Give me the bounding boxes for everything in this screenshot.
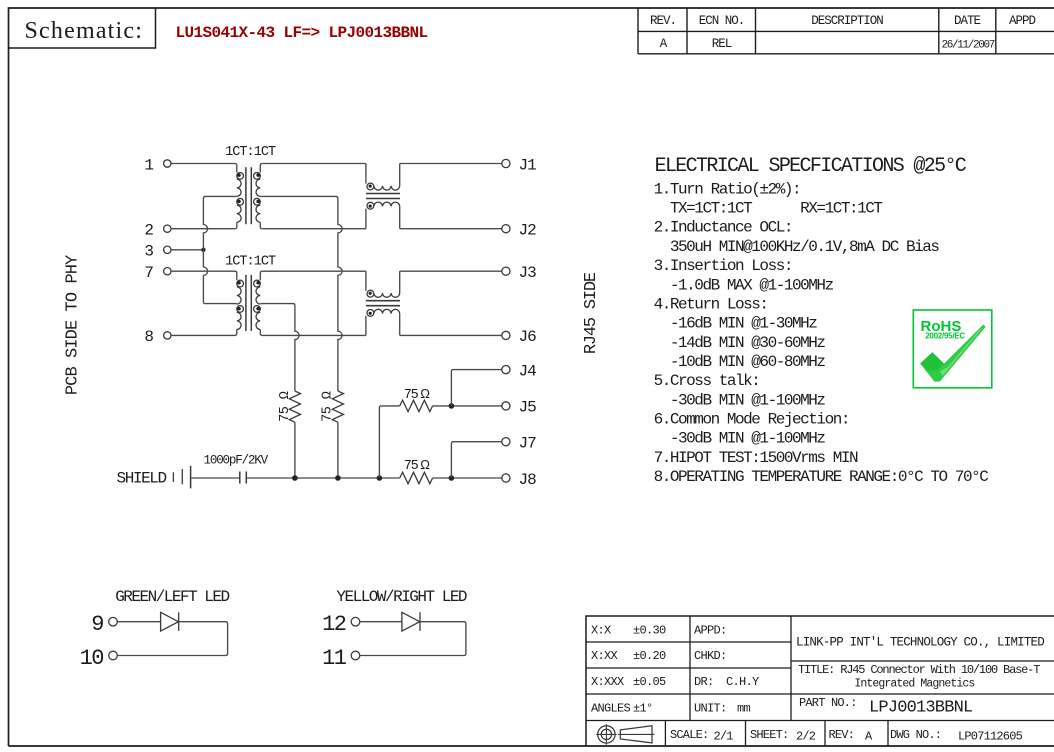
svg-text:-1.0dB MAX @1-100MHz: -1.0dB MAX @1-100MHz	[654, 276, 834, 294]
svg-text:ANGLES: ANGLES	[591, 702, 631, 716]
resistor R3 75ohm (horizontal)	[400, 400, 433, 411]
junction dots on bus	[292, 475, 382, 481]
svg-text:GREEN/LEFT LED: GREEN/LEFT LED	[115, 588, 229, 606]
common-mode choke CM2 core	[366, 301, 400, 306]
svg-text:±0.05: ±0.05	[633, 675, 666, 689]
svg-text:11: 11	[322, 646, 347, 671]
pin 3	[144, 243, 171, 261]
pin J7	[502, 435, 536, 453]
svg-text:X:X: X:X	[591, 624, 611, 638]
revision table	[638, 8, 1054, 54]
svg-text:-30dB MIN @1-100MHz: -30dB MIN @1-100MHz	[654, 430, 826, 448]
center-tap net vertical (pin3 to T1/T2 taps)	[203, 196, 236, 303]
polarity dots T2	[237, 281, 260, 310]
svg-text:8: 8	[144, 328, 154, 346]
svg-text:UNIT:: UNIT:	[694, 702, 727, 716]
svg-text:-14dB MIN @30-60MHz: -14dB MIN @30-60MHz	[654, 334, 826, 352]
wire R3 to J5	[433, 405, 502, 407]
pin J2	[502, 222, 536, 240]
junction dot pin3	[201, 248, 205, 252]
tolerance column text	[591, 624, 666, 716]
svg-text:DWG NO.:: DWG NO.:	[890, 728, 941, 742]
common-mode choke CM2 top winding	[366, 271, 400, 297]
svg-text:REV:: REV:	[829, 728, 855, 742]
wire CMC to J6	[400, 334, 502, 336]
label 1CT:1CT (T1)	[225, 145, 276, 160]
polarity dots CM1	[369, 185, 372, 208]
svg-text:J6: J6	[519, 328, 537, 346]
pin J6	[502, 328, 536, 346]
svg-text:Schematic:: Schematic:	[25, 18, 144, 44]
svg-text:APPD: APPD	[1009, 14, 1036, 28]
svg-text:ECN NO.: ECN NO.	[699, 14, 745, 28]
transformer T1 secondary winding	[254, 164, 263, 229]
RoHS logo	[913, 310, 992, 388]
svg-text:DATE: DATE	[954, 14, 981, 28]
approval column text	[694, 624, 759, 716]
label 75ohm R1	[278, 391, 293, 422]
svg-text:SHIELD: SHIELD	[117, 470, 167, 488]
label RJ45 SIDE	[582, 272, 601, 354]
pin 12	[322, 612, 360, 637]
pin 11	[322, 646, 360, 671]
svg-text:REV.: REV.	[650, 14, 676, 28]
pin J3	[502, 264, 536, 282]
svg-text:2/1: 2/1	[714, 730, 734, 744]
svg-text:75 Ω: 75 Ω	[278, 391, 293, 422]
resistor R1 75ohm (vertical)	[289, 391, 300, 422]
wire T2 secondary bottom to CMC2	[262, 334, 366, 336]
capacitor 1000pF/2KV	[240, 472, 247, 484]
svg-text:-30dB MIN @1-100MHz: -30dB MIN @1-100MHz	[654, 391, 826, 409]
svg-text:J3: J3	[519, 264, 537, 282]
wire pin12 to LED2	[360, 621, 402, 623]
pin J8	[502, 471, 536, 489]
svg-text:12: 12	[322, 612, 346, 637]
svg-text:LPJ0013BBNL: LPJ0013BBNL	[869, 699, 973, 718]
wire T2 secondary top to CMC2	[262, 270, 366, 272]
polarity dots CM2	[369, 292, 372, 315]
svg-text:DESCRIPTION: DESCRIPTION	[811, 14, 883, 28]
label YELLOW/RIGHT LED	[336, 588, 467, 606]
svg-text:Ω: Ω	[420, 457, 430, 472]
wire T1 secondary top to CMC1	[262, 163, 366, 165]
svg-text:YELLOW/RIGHT LED: YELLOW/RIGHT LED	[336, 588, 467, 606]
svg-text:4.Return Loss:: 4.Return Loss:	[654, 295, 768, 313]
junction dot J7 branch	[449, 475, 455, 481]
svg-text:A: A	[865, 730, 873, 744]
svg-text:1CT:1CT: 1CT:1CT	[225, 255, 276, 270]
wire CMC to J3	[400, 270, 502, 272]
svg-text:J7: J7	[519, 435, 537, 453]
schematic title text	[25, 18, 144, 44]
transformer T1 core	[246, 167, 251, 224]
wire pin9 to LED1	[117, 621, 160, 623]
svg-text:10: 10	[80, 646, 104, 671]
svg-text:±0.30: ±0.30	[633, 624, 666, 638]
svg-text:PCB SIDE TO PHY: PCB SIDE TO PHY	[64, 255, 83, 395]
svg-text:A: A	[660, 37, 668, 51]
svg-text:±1°: ±1°	[633, 702, 653, 716]
svg-text:CHKD:: CHKD:	[694, 649, 727, 663]
common-mode choke CM1 bottom winding	[366, 202, 400, 229]
pin 2	[144, 222, 171, 240]
svg-text:6.Common Mode Rejection:: 6.Common Mode Rejection:	[654, 410, 849, 428]
LED2 diode (yellow/right)	[402, 612, 420, 631]
label 75ohm R3	[404, 386, 430, 403]
common-mode choke CM2 bottom winding	[366, 309, 400, 335]
revision table header text	[650, 14, 1036, 28]
resistor R4 75ohm (horizontal)	[400, 472, 433, 483]
pin J5	[502, 399, 536, 417]
schematic title box	[9, 8, 156, 48]
pin J1	[502, 156, 536, 174]
svg-text:LP07112605: LP07112605	[958, 730, 1023, 744]
svg-text:SCALE:: SCALE:	[670, 728, 708, 742]
svg-text:J4: J4	[519, 362, 537, 380]
svg-text:PART NO.:: PART NO.:	[799, 696, 857, 710]
svg-text:APPD:: APPD:	[694, 624, 727, 638]
wire CMC to J1	[400, 163, 502, 165]
svg-text:3: 3	[144, 243, 154, 261]
wire R1 to bus	[294, 422, 296, 478]
svg-text:RJ45 SIDE: RJ45 SIDE	[582, 272, 601, 354]
svg-text:2002/95/EC: 2002/95/EC	[925, 332, 965, 341]
svg-text:REL: REL	[712, 37, 732, 51]
wire pin1 to T1 (drawn with T1 primary)	[0, 0, 1, 1]
svg-text:DR:: DR:	[694, 675, 714, 689]
svg-text:TITLE: RJ45 Connector With 10/: TITLE: RJ45 Connector With 10/100 Base-T	[798, 663, 1040, 677]
label SHIELD	[117, 470, 167, 488]
resistor R2 75ohm (vertical)	[332, 391, 343, 422]
wire R4 to J8	[433, 477, 502, 479]
company name	[796, 635, 1044, 649]
transformer T2 core	[246, 275, 251, 331]
svg-text:LU1S041X-43 LF=> LPJ0013BBNL: LU1S041X-43 LF=> LPJ0013BBNL	[176, 24, 428, 42]
svg-text:J5: J5	[519, 399, 537, 417]
svg-text:7.HIPOT TEST:1500Vrms MIN: 7.HIPOT TEST:1500Vrms MIN	[654, 449, 858, 467]
pin 8	[144, 328, 171, 346]
wire CMC to J2	[400, 228, 502, 230]
svg-text:75 Ω: 75 Ω	[320, 391, 335, 422]
part number header (red)	[176, 24, 428, 42]
svg-text:-10dB MIN @60-80MHz: -10dB MIN @60-80MHz	[654, 353, 826, 371]
svg-text:J1: J1	[519, 156, 537, 174]
svg-text:C.H.Y: C.H.Y	[726, 675, 759, 689]
svg-text:1000pF/2KV: 1000pF/2KV	[204, 454, 269, 468]
polarity dots T1	[237, 173, 260, 203]
electrical specifications title	[655, 155, 967, 178]
svg-text:Ω: Ω	[420, 386, 430, 401]
svg-text:2: 2	[144, 222, 154, 240]
svg-text:5.Cross talk:: 5.Cross talk:	[654, 372, 760, 390]
wire LED2 to pin11	[360, 622, 466, 656]
svg-text:1: 1	[144, 156, 154, 174]
label PCB SIDE TO PHY	[64, 255, 83, 395]
junction dot J5 branch	[449, 403, 455, 409]
ground bus wire	[246, 477, 399, 479]
svg-text:2/2: 2/2	[796, 730, 816, 744]
transformer T1 primary winding	[171, 164, 243, 229]
revision row A REL 26/11/2007	[660, 37, 995, 52]
wire pin2 to T1 bottom	[0, 0, 1, 1]
svg-text:75: 75	[404, 459, 419, 474]
wire bus up to R3 branch	[379, 406, 399, 478]
svg-text:350uH MIN@100KHz/0.1V,8mA DC B: 350uH MIN@100KHz/0.1V,8mA DC Bias	[654, 238, 940, 256]
wire up to J7	[451, 442, 501, 478]
label 1CT:1CT (T2)	[225, 255, 276, 270]
transformer T2 primary winding	[171, 271, 243, 335]
wire T1 secondary center tap to node	[260, 196, 342, 391]
svg-text:3.Insertion Loss:: 3.Insertion Loss:	[654, 257, 792, 275]
svg-text:-16dB MIN @1-30MHz: -16dB MIN @1-30MHz	[654, 315, 818, 333]
svg-text:7: 7	[144, 264, 154, 282]
svg-text:9: 9	[91, 612, 103, 637]
svg-text:1.Turn Ratio(±2%):: 1.Turn Ratio(±2%):	[654, 180, 801, 198]
shield terminal bars	[173, 466, 190, 489]
title text	[798, 663, 1040, 690]
svg-text:26/11/2007: 26/11/2007	[942, 40, 995, 52]
svg-text:SHEET:: SHEET:	[750, 728, 788, 742]
svg-text:LINK-PP INT'L TECHNOLOGY CO.,: LINK-PP INT'L TECHNOLOGY CO., LIMITED	[796, 635, 1044, 649]
wire T2 secondary center tap to node	[260, 304, 299, 391]
pin 10	[80, 646, 118, 671]
label 1000pF/2KV	[204, 454, 269, 468]
svg-text:±0.20: ±0.20	[633, 649, 666, 663]
pin 1	[144, 156, 171, 174]
pin J4	[502, 362, 536, 380]
svg-text:ELECTRICAL SPECFICATIONS @25°C: ELECTRICAL SPECFICATIONS @25°C	[655, 155, 967, 178]
wire T1 secondary bottom to CMC1	[262, 228, 366, 230]
wire R2 to bus	[337, 422, 339, 478]
svg-text:1CT:1CT: 1CT:1CT	[225, 145, 276, 160]
svg-text:75: 75	[404, 388, 419, 403]
svg-text:TX=1CT:1CT RX=1CT:1CT: TX=1CT:1CT RX=1CT:1CT	[654, 200, 883, 218]
part no	[799, 696, 973, 717]
label 75ohm R4	[404, 457, 430, 474]
transformer T2 secondary winding	[254, 271, 263, 335]
wire LED1 to pin10	[117, 622, 227, 656]
LED1 diode (green/left)	[161, 612, 179, 631]
scale/sheet/rev/dwg row	[670, 728, 1023, 744]
first-angle projection symbol	[596, 724, 654, 745]
wire pin3 to center-tap net	[171, 249, 203, 251]
svg-text:8.OPERATING TEMPERATURE RANGE:: 8.OPERATING TEMPERATURE RANGE:0°C TO 70°…	[654, 468, 989, 486]
svg-text:mm: mm	[737, 702, 751, 716]
common-mode choke CM1 top winding	[366, 164, 400, 191]
svg-text:2.Inductance OCL:: 2.Inductance OCL:	[654, 219, 792, 237]
title block grid	[586, 616, 1054, 746]
svg-text:J8: J8	[519, 471, 537, 489]
svg-text:Integrated Magnetics: Integrated Magnetics	[854, 677, 974, 690]
svg-text:J2: J2	[519, 222, 537, 240]
wire shield to capacitor	[191, 477, 240, 479]
label GREEN/LEFT LED	[115, 588, 229, 606]
wire up to J4	[451, 370, 501, 406]
pin 9	[91, 612, 117, 637]
electrical specifications list	[654, 180, 989, 486]
common-mode choke CM1 core	[366, 194, 400, 199]
pin 7	[144, 264, 171, 282]
label 75ohm R2	[320, 391, 335, 422]
svg-text:X:XXX: X:XXX	[591, 675, 624, 689]
svg-text:X:XX: X:XX	[591, 649, 618, 663]
